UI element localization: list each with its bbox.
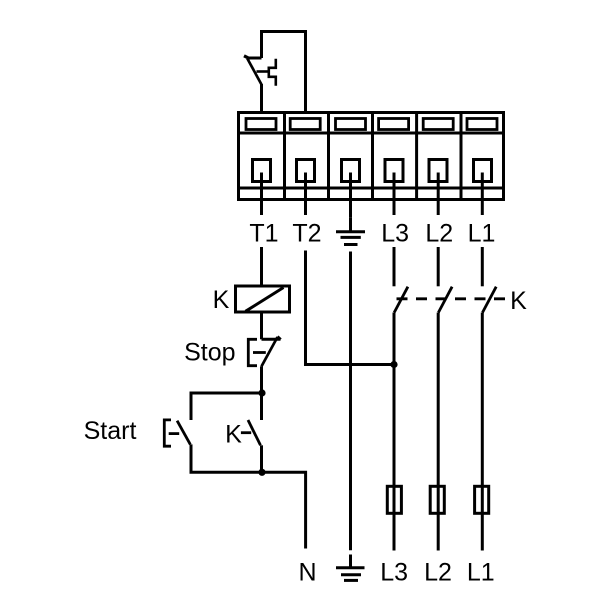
terminal block TB (6 terminals) xyxy=(239,113,504,200)
wire earth down xyxy=(349,252,352,551)
terminal screw L1 xyxy=(474,160,492,216)
svg-text:N: N xyxy=(298,559,316,587)
label L2 (top) xyxy=(425,219,453,247)
earth symbol (below terminal 3) xyxy=(336,217,365,244)
terminal screw L3 xyxy=(385,160,403,216)
label K (aux contact) xyxy=(225,421,242,449)
terminal screw L2 xyxy=(429,160,447,216)
fuse F L1 xyxy=(475,486,489,513)
terminal slot 1 xyxy=(246,119,276,130)
mechanical link (dashed) to K xyxy=(397,297,508,300)
terminal screw earth xyxy=(342,160,360,218)
thermal overload trip switch S (top loop) xyxy=(244,32,306,114)
svg-text:K: K xyxy=(213,286,230,314)
wire coil to stop xyxy=(260,312,263,339)
label L2 (bottom) xyxy=(424,559,452,587)
junction dot (start top) xyxy=(258,389,265,396)
fuse F L3 xyxy=(387,486,401,513)
label T1 xyxy=(249,219,278,247)
terminal screw T2 xyxy=(297,160,315,216)
svg-text:K: K xyxy=(225,421,242,449)
stop push button S1 (NC) xyxy=(248,336,281,366)
start branch bottom wire to N xyxy=(191,444,306,548)
wire L3 xyxy=(393,247,396,551)
svg-text:L3: L3 xyxy=(380,559,408,587)
contactor coil K1 xyxy=(236,286,290,312)
contactor main contact K pole L2 xyxy=(438,287,452,313)
terminal slot 3 xyxy=(336,119,366,130)
label L1 (bottom) xyxy=(467,559,495,587)
label L3 (top) xyxy=(381,219,409,247)
label Stop xyxy=(184,338,235,366)
wire L2 xyxy=(437,247,440,551)
fuse F L2 xyxy=(430,486,444,513)
svg-text:Start: Start xyxy=(84,417,137,445)
svg-text:L1: L1 xyxy=(468,219,496,247)
wire T2 down then right to L3 xyxy=(306,251,395,365)
contactor main contact K pole L1 xyxy=(483,287,497,313)
start push button S2 (NO) xyxy=(164,420,190,446)
wire K aux to bottom xyxy=(260,445,263,472)
earth symbol (bottom) xyxy=(336,555,365,581)
start branch wires xyxy=(191,393,262,420)
label N xyxy=(298,559,316,587)
terminal screw T1 xyxy=(253,160,271,216)
terminal slot 5 xyxy=(423,119,453,130)
svg-text:Stop: Stop xyxy=(184,338,235,366)
label L3 (bottom) xyxy=(380,559,408,587)
label L1 (top) xyxy=(468,219,496,247)
svg-text:L1: L1 xyxy=(467,559,495,587)
wire L1 xyxy=(481,247,484,551)
terminal slot 6 xyxy=(467,119,497,130)
label Start xyxy=(84,417,137,445)
junction dot (start bottom) xyxy=(258,469,265,476)
svg-text:L3: L3 xyxy=(381,219,409,247)
contactor aux contact K (NO) xyxy=(241,420,261,445)
svg-text:K: K xyxy=(510,287,527,315)
terminal slot 2 xyxy=(290,119,320,130)
label K (coil) xyxy=(213,286,230,314)
terminal slot 4 xyxy=(379,119,409,130)
svg-text:L2: L2 xyxy=(424,559,452,587)
label K (main contacts) xyxy=(510,287,527,315)
contactor main contact K pole L3 xyxy=(394,287,408,313)
svg-text:T1: T1 xyxy=(249,219,278,247)
wire stop to K aux xyxy=(260,366,263,420)
label T2 xyxy=(292,219,321,247)
junction dot (T2-L3) xyxy=(390,361,397,368)
wire T1 down to coil xyxy=(260,247,263,286)
svg-text:L2: L2 xyxy=(425,219,453,247)
svg-text:T2: T2 xyxy=(292,219,321,247)
